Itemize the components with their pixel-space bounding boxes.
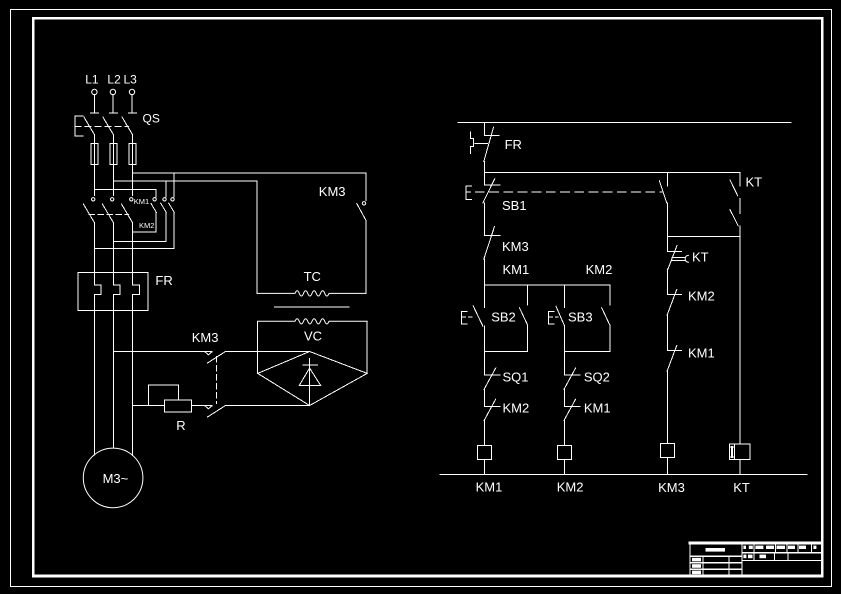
svg-text:FR: FR xyxy=(155,273,172,288)
FR heater element 2 xyxy=(113,273,120,311)
svg-text:KM1: KM1 xyxy=(476,480,503,495)
svg-text:L3: L3 xyxy=(124,73,138,87)
fuse FU3 xyxy=(129,143,136,195)
wire to rectifier minus xyxy=(226,405,310,407)
contactor KM2 pole 3 xyxy=(169,198,175,249)
svg-text:KM2: KM2 xyxy=(503,401,530,416)
svg-text:SB2: SB2 xyxy=(491,310,516,325)
wire control top rail xyxy=(458,121,791,123)
transformer TC primary left wire xyxy=(256,181,258,294)
switch QS pole 3 xyxy=(122,113,137,143)
limit switch SQ2 NC xyxy=(564,351,580,406)
svg-text:KM3: KM3 xyxy=(658,480,685,495)
contact KM2 NC in KM3 branch xyxy=(667,289,681,350)
svg-text:SB3: SB3 xyxy=(568,310,593,325)
node L1 terminal xyxy=(92,89,97,113)
wire braking upper from phase2 xyxy=(113,351,211,353)
motor M3~ xyxy=(83,448,143,508)
svg-text:KT: KT xyxy=(692,250,709,265)
diode symbol xyxy=(299,359,320,406)
rectifier VC box xyxy=(257,322,259,374)
limit switch SQ1 NC xyxy=(484,351,500,406)
svg-text:M3~: M3~ xyxy=(103,471,129,486)
wire feed L1 to KM2 pole 1 xyxy=(94,189,156,197)
svg-text:KM1: KM1 xyxy=(688,346,715,361)
wire feed L2 to TC primary xyxy=(113,180,257,182)
transformer TC primary winding xyxy=(257,291,366,296)
wire control rail 2 xyxy=(485,171,741,173)
wire rail KT branch xyxy=(668,236,741,238)
svg-text:TC: TC xyxy=(304,269,321,284)
svg-text:KM2: KM2 xyxy=(688,289,715,304)
contact KM3 aux lower chevron xyxy=(205,406,211,409)
title block text blobs xyxy=(692,546,816,575)
svg-text:KM1: KM1 xyxy=(134,197,149,206)
wire drop to KM2 pole 2 xyxy=(165,181,167,197)
svg-text:VC: VC xyxy=(304,329,322,344)
pushbutton SB3 NC xyxy=(548,285,564,351)
wire to rectifier plus xyxy=(226,351,310,353)
FR heater element 3 xyxy=(133,273,140,311)
FR heater element 1 xyxy=(94,273,101,311)
switch QS pole 2 xyxy=(103,113,118,143)
wire feed L3 to KM3 power contact xyxy=(133,172,366,174)
svg-text:KM3: KM3 xyxy=(502,239,529,254)
svg-text:SQ2: SQ2 xyxy=(584,370,610,385)
contactor KM2 pole 2 xyxy=(161,198,167,242)
svg-text:KT: KT xyxy=(733,480,750,495)
transformer TC secondary winding xyxy=(258,319,368,324)
wire resistor to contact xyxy=(192,405,212,407)
contact KM3 aux upper chevron xyxy=(205,352,211,355)
contact SB1 linked NO braking xyxy=(659,172,667,236)
svg-text:KM1: KM1 xyxy=(584,401,611,416)
wire KM2 pole1 crossover to phase3 xyxy=(133,231,157,233)
coil KM1 xyxy=(478,445,492,474)
wire KM2 pole2 crossover to phase2 xyxy=(113,240,166,242)
transformer TC core xyxy=(275,306,349,308)
contactor KM2 pole 1 xyxy=(151,198,157,233)
svg-text:KM3: KM3 xyxy=(319,184,346,199)
wire braking lower from phase3 xyxy=(133,405,165,407)
wire SB2 group bottom xyxy=(485,350,528,352)
svg-text:QS: QS xyxy=(143,112,160,126)
contact KM2 self-hold NO xyxy=(602,285,610,351)
switch QS operator bracket xyxy=(75,116,83,136)
resistor R bypass loop xyxy=(149,385,179,406)
contact KT delayed NO xyxy=(668,237,689,295)
contactor KM1 linkage dashed xyxy=(89,214,129,216)
svg-text:L2: L2 xyxy=(107,73,121,87)
wire drop to KM2 pole 3 xyxy=(173,173,175,197)
wire KT branch down xyxy=(739,237,741,444)
wire parallel rail xyxy=(485,284,610,286)
switch QS linkage dashed xyxy=(75,125,129,127)
resistor R xyxy=(164,400,191,412)
svg-text:KM1: KM1 xyxy=(503,262,530,277)
wire FR to motor U xyxy=(93,311,95,455)
contact KM1 NC in KM3 branch xyxy=(667,345,681,443)
wire FR to motor W xyxy=(132,311,134,456)
contactor KM1 pole 1 xyxy=(83,198,95,273)
labels xyxy=(85,73,160,126)
svg-text:KM2: KM2 xyxy=(586,262,613,277)
svg-text:KM2: KM2 xyxy=(139,221,154,230)
contact KM3 aux upper blade xyxy=(208,352,226,364)
thermal relay FR box xyxy=(78,273,148,311)
svg-text:SQ1: SQ1 xyxy=(503,370,529,385)
fuse FU2 xyxy=(110,143,117,195)
wire SB3 group bottom xyxy=(564,350,609,352)
wire KM2 pole3 crossover to phase1 xyxy=(94,248,174,250)
coil KT xyxy=(729,444,750,474)
rectifier VC diamond xyxy=(258,352,368,406)
switch QS pole 1 xyxy=(84,113,99,143)
svg-text:SB1: SB1 xyxy=(502,198,527,213)
contact KM1 self-hold NO xyxy=(520,285,528,351)
contact KM3 aux lower blade xyxy=(208,406,226,418)
KM3 aux linkage dashed xyxy=(216,357,218,404)
TITLE BLOCK xyxy=(690,543,822,576)
svg-text:R: R xyxy=(176,418,185,433)
coil KM3 xyxy=(661,443,675,474)
contact KM3 NC interlock xyxy=(484,226,500,285)
contactor KM1 pole 2 xyxy=(102,198,114,273)
contact KM2 NC interlock left xyxy=(484,399,500,445)
svg-text:KT: KT xyxy=(746,175,763,190)
pushbutton SB2 NC xyxy=(461,285,484,351)
wire FR to motor V xyxy=(112,311,114,449)
svg-text:KM3: KM3 xyxy=(192,330,219,345)
svg-text:KM2: KM2 xyxy=(557,480,584,495)
SB1 linkage dashed xyxy=(475,191,662,193)
contact KM3 power xyxy=(357,173,366,293)
pushbutton SB1 NC xyxy=(466,172,500,235)
contact KT double NO top right xyxy=(730,172,740,236)
node L2 terminal xyxy=(110,89,115,113)
svg-text:L1: L1 xyxy=(85,73,99,87)
node L3 terminal xyxy=(129,89,134,113)
contact FR NC control xyxy=(470,122,499,172)
contact KM1 NC interlock right xyxy=(564,399,580,445)
svg-text:FR: FR xyxy=(505,137,522,152)
fuse FU1 xyxy=(91,143,98,195)
contactor KM1 pole 3 xyxy=(122,198,134,273)
wire control bottom rail xyxy=(440,473,807,475)
coil KM2 xyxy=(558,445,572,474)
